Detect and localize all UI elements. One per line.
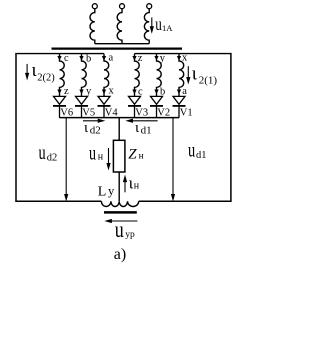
diode V5 bbox=[75, 96, 88, 117]
arrow ud2 bbox=[65, 118, 68, 200]
secondary winding c-z (V6 leg) bbox=[60, 54, 65, 97]
wire right border bbox=[230, 54, 232, 202]
svg-text:u: u bbox=[39, 140, 47, 164]
primary winding phase B bbox=[117, 9, 122, 44]
node cathode bus bbox=[60, 117, 180, 119]
svg-text:u: u bbox=[115, 217, 124, 242]
diode V6 bbox=[53, 96, 66, 117]
primary winding phase C bbox=[144, 9, 149, 44]
svg-text:b: b bbox=[86, 54, 91, 65]
svg-text:н: н bbox=[98, 151, 104, 162]
svg-text:2(2): 2(2) bbox=[37, 72, 55, 83]
svg-text:u: u bbox=[89, 140, 96, 164]
svg-text:ι: ι bbox=[84, 120, 88, 136]
svg-text:V6: V6 bbox=[60, 108, 73, 119]
svg-text:2(1): 2(1) bbox=[199, 75, 218, 87]
wire primary neutral connector bbox=[95, 43, 149, 45]
svg-text:V2: V2 bbox=[157, 108, 170, 119]
diode V1 bbox=[173, 96, 186, 117]
svg-text:z: z bbox=[138, 53, 143, 64]
diode V4 bbox=[98, 96, 111, 117]
svg-text:V3: V3 bbox=[135, 108, 148, 119]
arrow i2(1) bbox=[187, 66, 190, 82]
arrow ud1 bbox=[172, 118, 175, 200]
svg-text:z: z bbox=[64, 86, 69, 97]
svg-text:1A: 1A bbox=[162, 23, 173, 33]
node left neutral bus bbox=[15, 53, 104, 55]
terminal A bbox=[92, 4, 97, 9]
svg-text:у: у bbox=[108, 184, 115, 198]
wire load top bbox=[118, 118, 120, 141]
secondary winding a-x (V4 leg) bbox=[104, 54, 109, 97]
diode V2 bbox=[150, 96, 163, 117]
svg-text:y: y bbox=[86, 86, 92, 97]
svg-text:d1: d1 bbox=[141, 125, 152, 137]
wire bottom rail left bbox=[15, 200, 101, 202]
resistor ZH box bbox=[113, 140, 125, 172]
transformer core bar bbox=[52, 47, 183, 49]
arrow id2 bbox=[83, 119, 103, 122]
svg-text:c: c bbox=[138, 86, 143, 97]
svg-text:ур: ур bbox=[125, 230, 135, 240]
svg-text:н: н bbox=[139, 152, 144, 162]
svg-text:н: н bbox=[134, 180, 140, 191]
secondary winding y-b (V2 leg) bbox=[157, 54, 162, 97]
svg-text:b: b bbox=[160, 86, 165, 97]
svg-text:d2: d2 bbox=[47, 153, 58, 164]
arrow u1A bbox=[150, 18, 153, 32]
arrow id1 bbox=[127, 119, 157, 122]
secondary winding x-a (V1 leg) bbox=[179, 54, 184, 97]
primary winding phase A bbox=[90, 9, 95, 44]
wire load bottom bbox=[118, 172, 120, 201]
secondary winding z-c (V3 leg) bbox=[135, 54, 140, 97]
svg-text:x: x bbox=[109, 85, 115, 96]
diode V3 bbox=[128, 96, 141, 117]
svg-text:a: a bbox=[182, 86, 187, 97]
arrow iH bbox=[124, 177, 127, 193]
arrow i2(2) bbox=[26, 64, 29, 79]
svg-text:d2: d2 bbox=[90, 125, 101, 137]
svg-text:Z: Z bbox=[128, 146, 137, 162]
svg-text:ι: ι bbox=[135, 120, 139, 136]
wire bottom rail right bbox=[139, 200, 232, 202]
svg-text:y: y bbox=[160, 53, 166, 64]
svg-text:ι: ι bbox=[192, 64, 198, 85]
svg-text:L: L bbox=[98, 185, 107, 200]
wire left border bbox=[15, 54, 17, 202]
arrow uH bbox=[107, 148, 110, 169]
svg-text:c: c bbox=[64, 53, 69, 64]
secondary winding b-y (V5 leg) bbox=[82, 54, 87, 97]
inductor Ly bbox=[101, 201, 138, 206]
svg-text:V5: V5 bbox=[82, 108, 95, 119]
svg-text:V1: V1 bbox=[180, 108, 193, 119]
terminal B bbox=[120, 4, 125, 9]
terminal C bbox=[147, 4, 152, 9]
node right neutral bus bbox=[135, 53, 232, 55]
svg-text:V4: V4 bbox=[105, 108, 119, 119]
svg-text:d1: d1 bbox=[196, 150, 207, 161]
svg-text:а): а) bbox=[114, 246, 126, 263]
svg-text:u: u bbox=[188, 137, 196, 161]
svg-text:a: a bbox=[109, 53, 114, 64]
inductor Ly core bar bbox=[104, 211, 137, 214]
arrow uyp bbox=[106, 220, 137, 223]
svg-text:u: u bbox=[155, 14, 162, 34]
svg-text:x: x bbox=[182, 53, 188, 64]
